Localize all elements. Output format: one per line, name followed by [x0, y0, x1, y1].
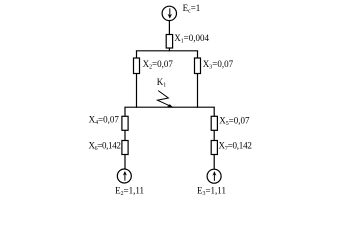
svg-text:X4=0,07: X4=0,07	[89, 114, 120, 126]
svg-text:E3=1,11: E3=1,11	[197, 185, 226, 197]
svg-text:X2=0,07: X2=0,07	[143, 59, 174, 71]
svg-text:Ec=1: Ec=1	[183, 3, 201, 15]
svg-text:E2=1,11: E2=1,11	[115, 185, 144, 197]
svg-text:X7=0,142: X7=0,142	[219, 141, 252, 153]
svg-text:X5=0,07: X5=0,07	[219, 115, 250, 127]
svg-text:X6=0,142: X6=0,142	[89, 141, 121, 153]
svg-text:K1: K1	[157, 77, 167, 89]
svg-text:X3=0,07: X3=0,07	[203, 59, 234, 71]
svg-text:X1=0,004: X1=0,004	[174, 33, 209, 45]
